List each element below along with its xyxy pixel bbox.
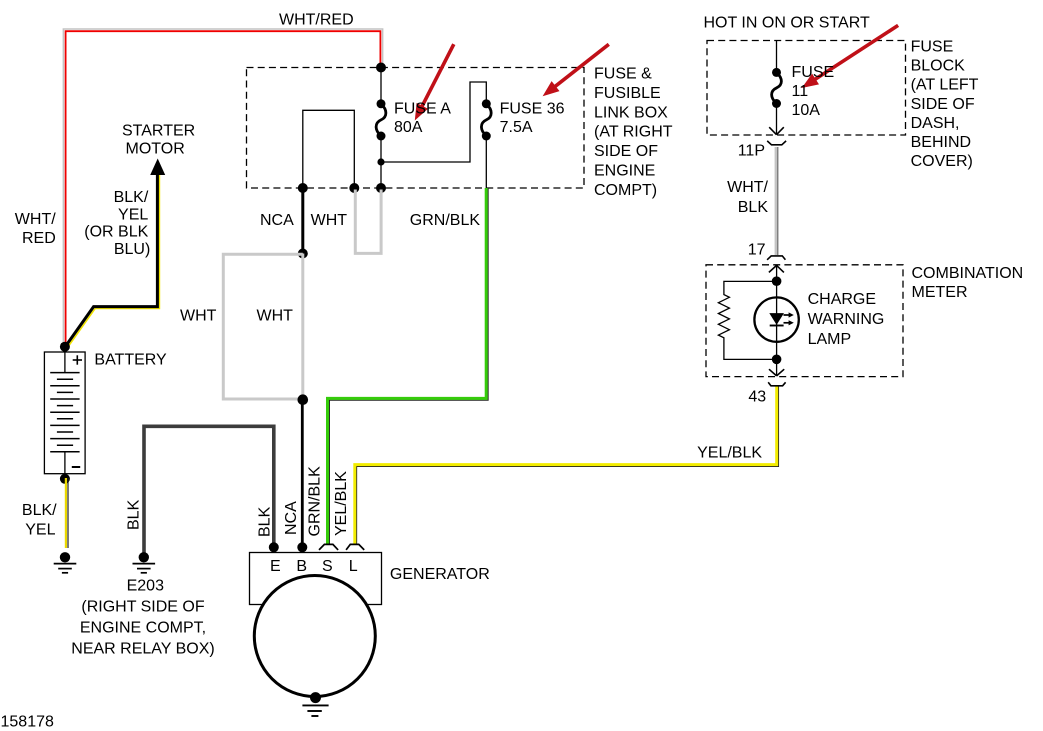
svg-text:(AT RIGHT: (AT RIGHT [594, 124, 673, 141]
svg-text:ENGINE COMPT,: ENGINE COMPT, [80, 620, 206, 637]
svg-text:WHT/RED: WHT/RED [279, 12, 354, 29]
svg-text:BEHIND: BEHIND [911, 134, 971, 151]
svg-text:43: 43 [748, 388, 766, 405]
svg-text:BLK: BLK [126, 499, 143, 530]
svg-text:(AT LEFT: (AT LEFT [911, 77, 979, 94]
svg-text:GRN/BLK: GRN/BLK [306, 466, 323, 537]
svg-text:BLK: BLK [738, 199, 769, 216]
svg-text:B: B [296, 558, 307, 575]
svg-text:CHARGE: CHARGE [808, 291, 876, 308]
svg-text:NEAR RELAY BOX): NEAR RELAY BOX) [71, 641, 214, 658]
svg-text:COMPT): COMPT) [594, 182, 657, 199]
svg-text:LAMP: LAMP [808, 331, 852, 348]
svg-text:FUSIBLE: FUSIBLE [594, 85, 661, 102]
svg-text:SIDE OF: SIDE OF [594, 143, 658, 160]
svg-text:WHT: WHT [180, 308, 217, 325]
svg-text:BLU): BLU) [114, 241, 150, 258]
svg-text:FUSE: FUSE [792, 64, 835, 81]
svg-text:NCA: NCA [260, 212, 294, 229]
svg-text:RED: RED [22, 230, 56, 247]
svg-text:STARTER: STARTER [122, 122, 195, 139]
svg-text:WHT/: WHT/ [727, 179, 768, 196]
svg-text:SIDE OF: SIDE OF [911, 96, 975, 113]
svg-text:FUSE &: FUSE & [594, 66, 652, 83]
svg-text:FUSE: FUSE [911, 39, 954, 56]
svg-text:WARNING: WARNING [808, 311, 885, 328]
svg-text:COMBINATION: COMBINATION [912, 265, 1024, 282]
svg-text:WHT: WHT [257, 308, 294, 325]
svg-text:L: L [349, 558, 358, 575]
svg-text:COVER): COVER) [911, 153, 973, 170]
svg-text:BLK/: BLK/ [22, 502, 57, 519]
svg-text:7.5A: 7.5A [500, 119, 533, 136]
svg-text:FUSE 36: FUSE 36 [500, 101, 565, 118]
svg-text:YEL/BLK: YEL/BLK [333, 471, 350, 536]
svg-text:GRN/BLK: GRN/BLK [410, 212, 481, 229]
svg-text:YEL: YEL [118, 206, 148, 223]
svg-text:FUSE A: FUSE A [394, 101, 451, 118]
svg-text:(OR BLK: (OR BLK [84, 224, 148, 241]
svg-text:11P: 11P [738, 143, 765, 160]
svg-text:BLOCK: BLOCK [911, 58, 966, 75]
svg-text:11: 11 [792, 83, 809, 100]
svg-text:80A: 80A [394, 119, 423, 136]
svg-text:ENGINE: ENGINE [594, 163, 655, 180]
svg-text:E: E [270, 558, 281, 575]
svg-text:17: 17 [748, 242, 766, 259]
svg-text:WHT/: WHT/ [15, 211, 56, 228]
svg-text:BLK: BLK [257, 506, 274, 537]
svg-text:E203: E203 [127, 577, 164, 594]
svg-text:GENERATOR: GENERATOR [390, 566, 490, 583]
svg-text:BATTERY: BATTERY [94, 351, 167, 368]
svg-text:(RIGHT SIDE OF: (RIGHT SIDE OF [81, 599, 204, 616]
svg-text:METER: METER [912, 284, 968, 301]
svg-text:S: S [322, 558, 333, 575]
svg-text:MOTOR: MOTOR [126, 141, 185, 158]
svg-text:WHT: WHT [311, 212, 348, 229]
svg-text:YEL: YEL [25, 522, 55, 539]
svg-text:HOT IN ON OR START: HOT IN ON OR START [704, 15, 870, 32]
svg-text:DASH,: DASH, [911, 115, 960, 132]
svg-text:158178: 158178 [1, 714, 54, 731]
svg-text:NCA: NCA [283, 501, 300, 535]
svg-text:YEL/BLK: YEL/BLK [697, 445, 762, 462]
svg-text:10A: 10A [792, 102, 821, 119]
svg-text:LINK BOX: LINK BOX [594, 104, 668, 121]
svg-text:BLK/: BLK/ [114, 189, 149, 206]
